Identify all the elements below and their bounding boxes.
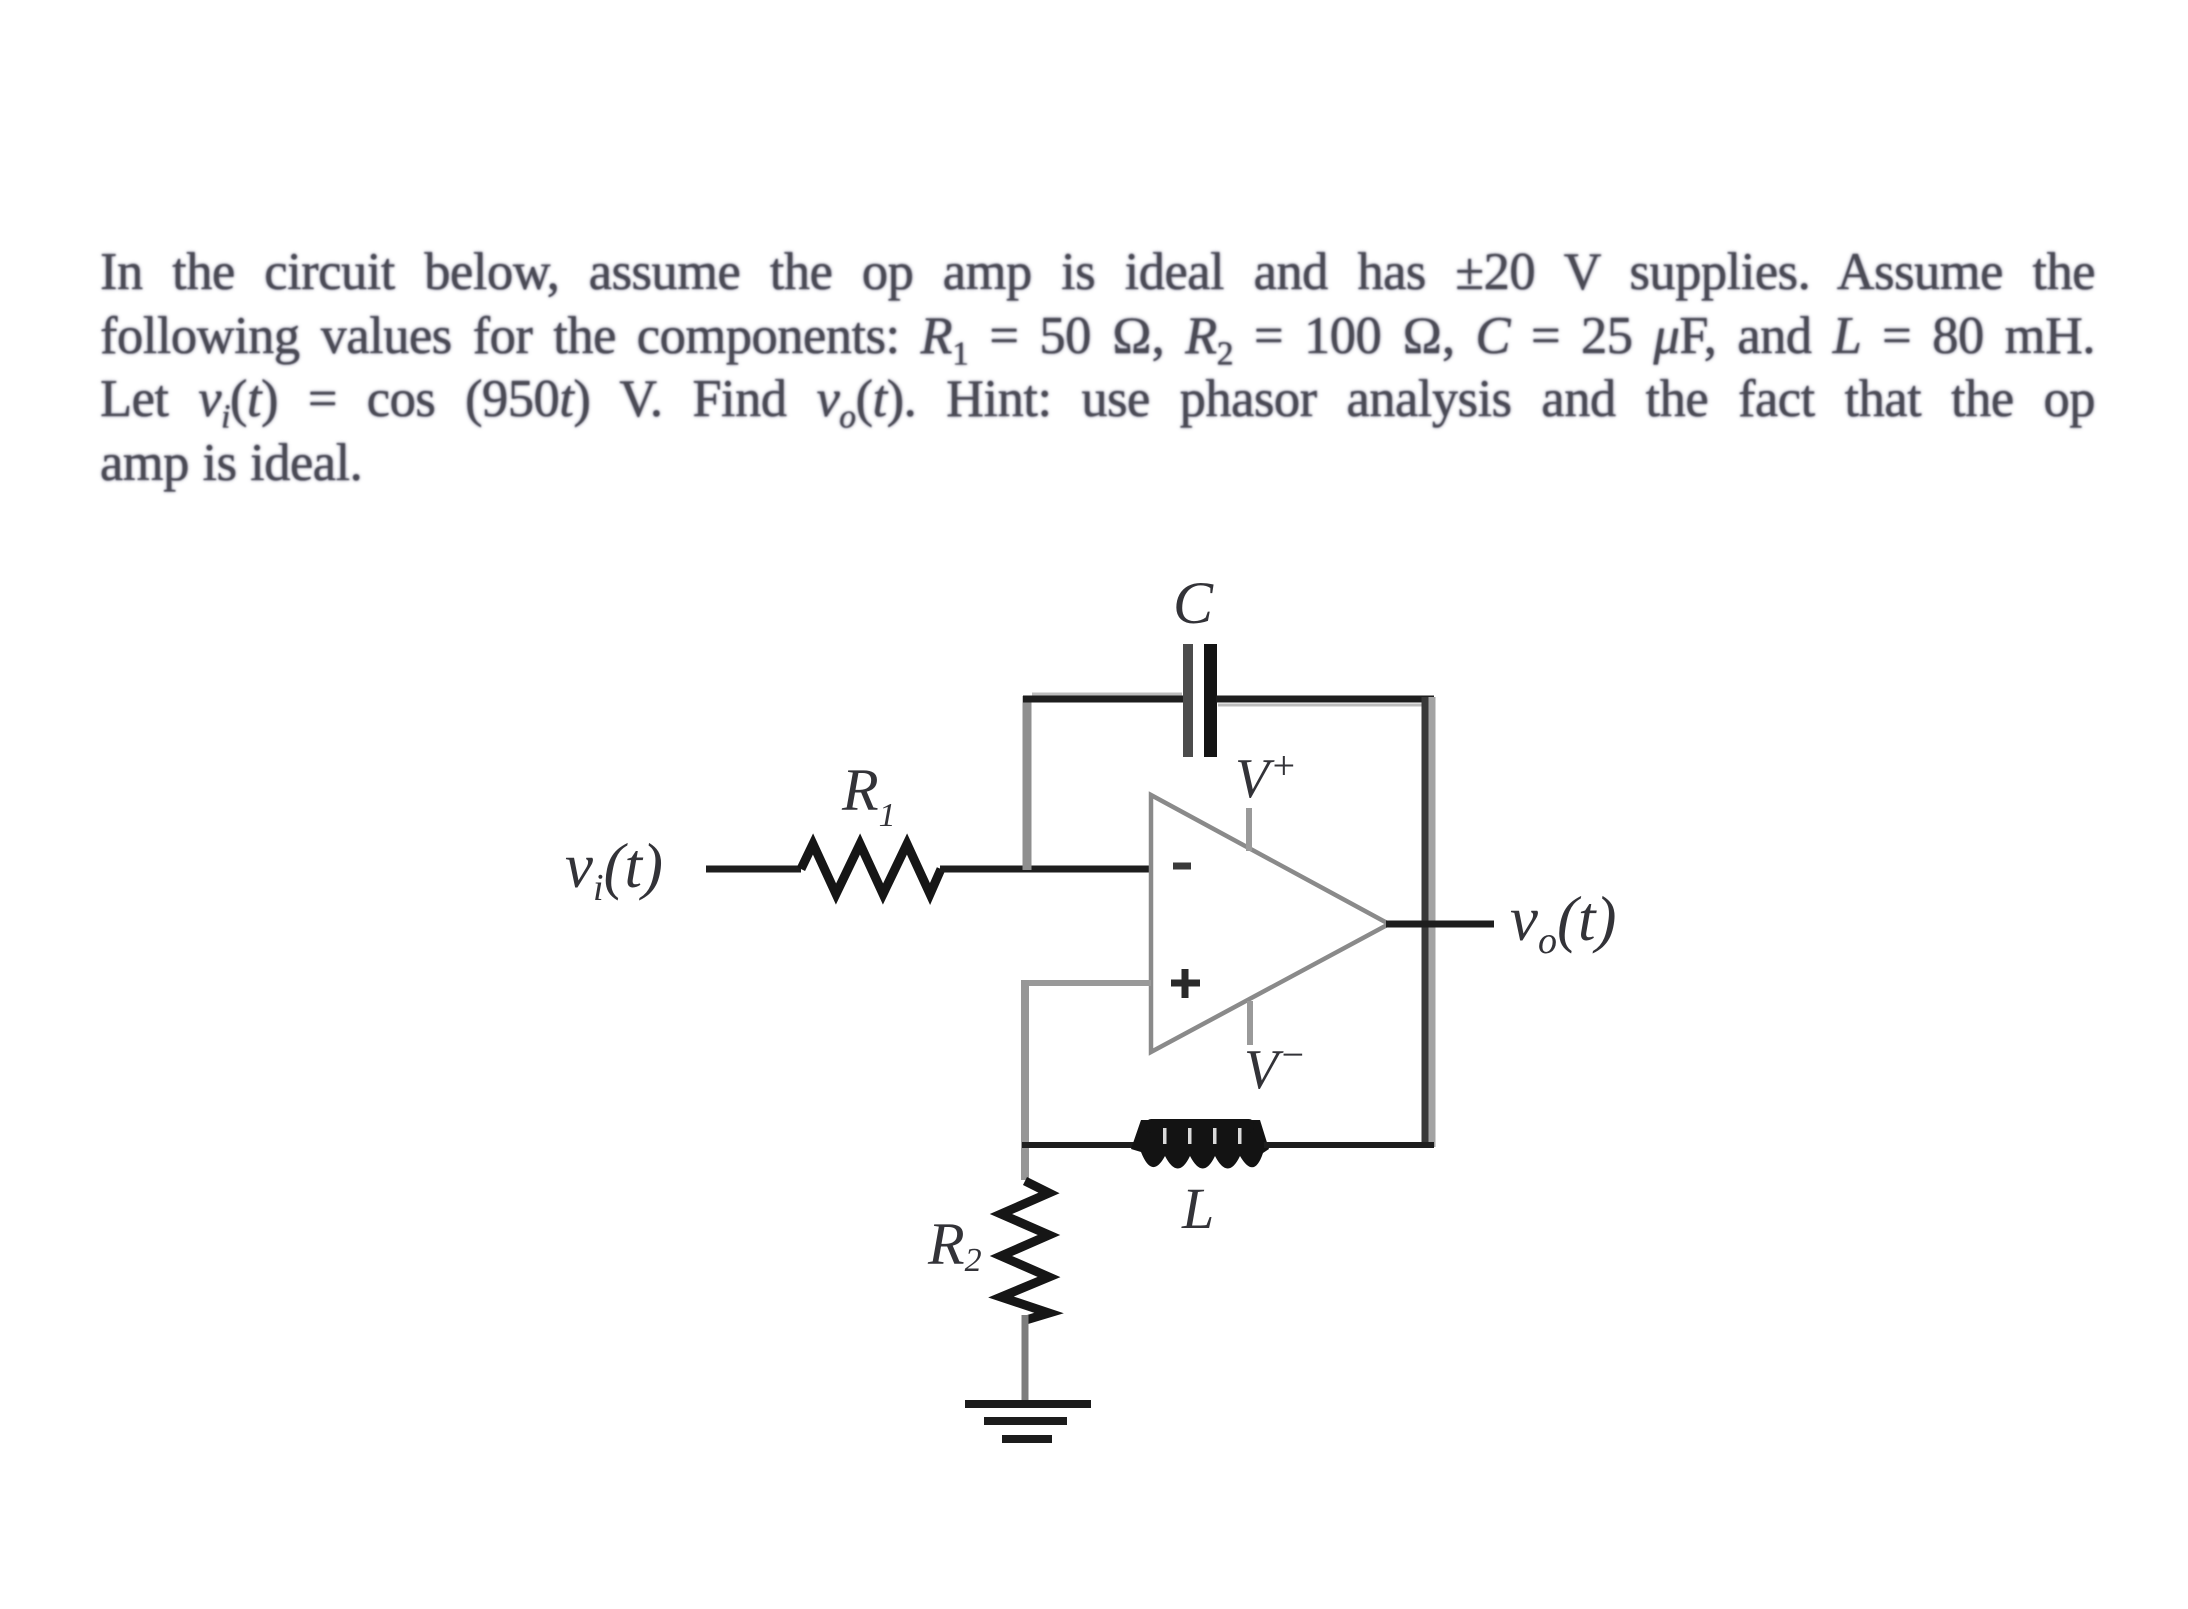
svg-text:V: V	[1244, 1039, 1284, 1101]
op-amp minus sign	[1173, 863, 1191, 870]
wire top feedback right	[1216, 696, 1434, 703]
wire top feedback left	[1023, 696, 1184, 703]
ground	[965, 1404, 1091, 1439]
resistor R2	[1001, 1181, 1049, 1320]
wire bottom feedback left	[1022, 1142, 1140, 1148]
svg-text:C: C	[1173, 570, 1214, 636]
wire right vertical	[1422, 697, 1429, 1147]
svg-text:−: −	[1279, 1032, 1306, 1077]
resistor R1	[801, 844, 941, 894]
wire noninverting input	[1022, 980, 1151, 986]
svg-text:R1: R1	[841, 757, 896, 834]
op-amp plus sign	[1171, 969, 1200, 998]
svg-text:V: V	[1235, 748, 1275, 810]
wire left vertical noninverting	[1021, 980, 1029, 1180]
svg-text:vo(t): vo(t)	[1510, 884, 1616, 962]
svg-text:R2: R2	[927, 1211, 982, 1279]
capacitor C plate right	[1204, 644, 1217, 757]
wire R2 to ground	[1022, 1315, 1029, 1402]
capacitor C plate left	[1183, 644, 1193, 757]
svg-text:L: L	[1181, 1176, 1214, 1241]
svg-text:vi(t): vi(t)	[565, 831, 663, 909]
pin V+	[1246, 808, 1252, 851]
wire input right	[940, 866, 1151, 873]
wire bottom feedback right	[1264, 1142, 1434, 1148]
wire output	[1386, 921, 1494, 928]
wire left vertical to top feedback	[1023, 696, 1032, 870]
svg-text:+: +	[1270, 743, 1297, 788]
wire input left	[706, 866, 801, 873]
inductor L	[1131, 1120, 1269, 1169]
op-amp U1	[1151, 795, 1389, 1052]
pin V-	[1247, 1001, 1253, 1045]
